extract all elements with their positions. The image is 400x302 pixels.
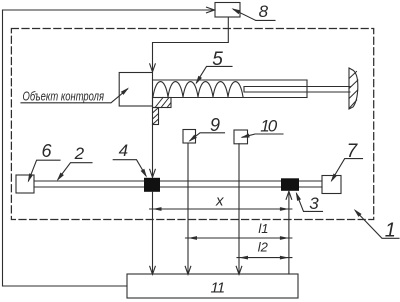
wire top from left edge to block 8 (3, 9, 214, 11)
label 3 (296, 192, 323, 213)
svg-text:4: 4 (119, 141, 128, 160)
dimension x (150, 193, 292, 211)
svg-text:2: 2 (74, 144, 85, 163)
wire bottom into block 11 (3, 285, 128, 287)
svg-text:8: 8 (259, 2, 269, 21)
bracket (hatched mount) horizontal bar (153, 98, 172, 108)
label 6 (28, 141, 60, 182)
spring housing bottom line (153, 97, 308, 99)
block 6 (16, 175, 34, 193)
svg-text:l1: l1 (258, 221, 268, 236)
rail 2 (guide bar, double line) (34, 181, 322, 187)
svg-text:Объект контроля: Объект контроля (23, 89, 105, 103)
wire from block 8 down and left to object (153, 17, 229, 70)
arrowhead into block 8 (207, 7, 215, 13)
enclosure 1 (dashed box) (11, 29, 373, 220)
arrowhead into block 11 from sensor 4 (150, 266, 156, 274)
block 9 (183, 130, 196, 144)
svg-text:3: 3 (309, 194, 319, 213)
block 8 (215, 3, 240, 18)
object under test box (119, 73, 152, 107)
block 10 (234, 130, 248, 144)
label 5 (196, 49, 233, 85)
wire from bracket down to sensor 4 (152, 125, 154, 176)
wire from sensor 3 down to block 11 (288, 191, 290, 274)
svg-text:9: 9 (210, 115, 220, 135)
arrowhead down at object top (150, 64, 156, 72)
wire from block 10 down to block 11 (238, 144, 240, 273)
spring coil 5 (153, 82, 243, 97)
label 7 (331, 141, 363, 182)
label 10 (241, 117, 284, 138)
svg-text:x: x (215, 193, 224, 210)
svg-text:11: 11 (211, 279, 225, 296)
rod / plunger (244, 87, 350, 93)
wire from sensor 4 down to block 11 (152, 192, 154, 273)
wire left side down (2, 10, 4, 286)
sensor 4 (black square) (144, 178, 160, 192)
sensor 3 (black square) (281, 178, 299, 191)
wire from block 9 down to block 11 (187, 143, 189, 273)
dimension l1 (186, 221, 292, 240)
label "Объект контроля" (21, 88, 129, 104)
svg-text:l2: l2 (258, 240, 269, 255)
block 11 (127, 274, 298, 298)
svg-text:10: 10 (260, 117, 277, 136)
spring housing right edge (306, 80, 308, 98)
bracket (hatched mount) vertical bar (153, 108, 159, 125)
arrowhead into block 11 from block 10 (236, 266, 242, 274)
dimension l2 (237, 240, 292, 260)
label 2 (57, 144, 92, 181)
label 4 (113, 141, 147, 178)
arrowhead up into sensor 3 (286, 191, 292, 199)
label 8 (232, 2, 276, 21)
block 7 (322, 176, 341, 194)
arrowhead down at sensor 4 (150, 169, 156, 177)
arrowhead into block 11 from block 9 (185, 266, 191, 274)
spring housing 5 top line (153, 79, 308, 81)
svg-text:6: 6 (42, 141, 53, 161)
label 1 (354, 209, 399, 241)
wall (fixed support) (349, 68, 358, 109)
label 9 (189, 115, 225, 142)
